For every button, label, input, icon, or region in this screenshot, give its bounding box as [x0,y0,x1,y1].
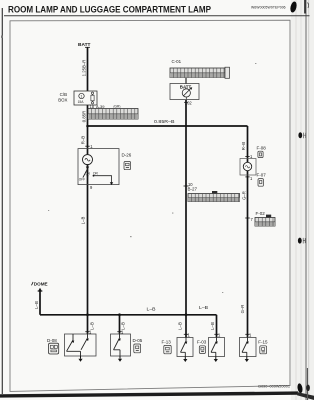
svg-text:D-05: D-05 [133,338,143,343]
svg-text:L–B: L–B [80,217,85,225]
svg-text:R–B: R–B [241,142,246,150]
svg-text:L–B: L–B [177,322,182,330]
svg-text:(GR): (GR) [114,105,121,109]
svg-text:ROOM LAMP AND LUGGAGE COMPARTM: ROOM LAMP AND LUGGAGE COMPARTMENT LAMP [8,5,211,15]
svg-text:F-13: F-13 [162,340,172,345]
svg-text:15A: 15A [78,100,85,104]
svg-text:L–B: L–B [199,305,208,310]
svg-text:L–B: L–B [34,301,39,309]
svg-text:G–R: G–R [240,305,245,314]
svg-text:F-08: F-08 [257,145,267,150]
svg-text:OFF: OFF [79,177,85,181]
svg-text:A-39: A-39 [96,104,105,109]
svg-text:F-07: F-07 [257,172,267,177]
svg-text:G–R: G–R [242,191,247,200]
svg-text:D090–009W20001: D090–009W20001 [258,385,290,389]
svg-text:D-08: D-08 [47,338,57,343]
svg-text:R–B: R–B [80,136,85,144]
svg-text:F-15: F-15 [258,340,268,345]
svg-text:L–B: L–B [147,307,156,312]
svg-text:F-03: F-03 [197,340,207,345]
svg-text:1: 1 [81,95,83,99]
svg-text:W6W0005W9TEP006: W6W0005W9TEP006 [251,5,286,9]
svg-text:DR: DR [93,171,98,175]
svg-text:18: 18 [90,104,95,109]
svg-text:ON: ON [85,171,90,175]
svg-text:C-01: C-01 [172,59,182,64]
svg-text:B-27: B-27 [188,187,198,192]
svg-text:0.85R: 0.85R [82,111,87,122]
svg-text:D-26: D-26 [122,152,132,157]
svg-text:BOX: BOX [58,98,67,103]
svg-text:L–B: L–B [210,322,215,330]
svg-text:C/B: C/B [60,92,67,97]
svg-text:1.25B–R: 1.25B–R [82,60,87,77]
svg-text:F-02: F-02 [256,211,266,216]
svg-text:102: 102 [185,101,193,106]
svg-text:0.85R–B: 0.85R–B [154,119,175,124]
svg-text:DOME: DOME [34,281,48,286]
